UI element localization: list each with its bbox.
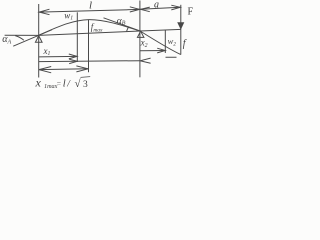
arrowhead left of a dimension — [140, 7, 149, 12]
deflection curve overhang — [140, 31, 181, 55]
arrowhead of x1 — [69, 54, 77, 59]
svg-text:αA: αA — [2, 34, 11, 45]
arrowhead right of a dimension — [171, 5, 180, 10]
deflection curve between supports — [39, 20, 140, 36]
svg-text:x1max=l/√3: x1max=l/√3 — [35, 76, 89, 91]
vertical extension line at x1max — [88, 20, 90, 73]
arrowhead right of l dimension — [130, 7, 140, 12]
tangent at B — [104, 18, 141, 31]
dimension line x (A to B row) — [39, 60, 140, 63]
overline of sqrt 3 — [81, 76, 91, 79]
svg-text:a: a — [154, 0, 159, 10]
arrowhead on x row at B — [140, 58, 151, 63]
svg-text:F: F — [188, 7, 194, 18]
extension line at support B — [139, 1, 141, 78]
extension line at support A — [38, 4, 40, 78]
arrowhead on x row at ordinate line — [69, 59, 77, 63]
arrowhead of x2 — [157, 48, 165, 53]
svg-text:l: l — [89, 0, 92, 11]
arrowhead left of l dimension — [39, 9, 49, 15]
dimension arrow x1 — [39, 55, 77, 58]
svg-text:x1: x1 — [43, 46, 51, 57]
support triangle A — [35, 36, 42, 43]
angle arc alpha_A — [15, 36, 24, 41]
svg-text:x2: x2 — [140, 37, 148, 49]
dimension line a (overhang) — [140, 7, 180, 9]
double arrow x1max: right head — [76, 66, 88, 72]
ordinate line w2 — [164, 30, 166, 53]
svg-text:fmax: fmax — [91, 22, 103, 34]
end tick of deflected beam — [166, 56, 177, 58]
double arrow x1max: left head — [39, 67, 51, 73]
support triangle B — [137, 31, 144, 37]
svg-text:αB: αB — [117, 17, 126, 27]
svg-text:w1: w1 — [64, 10, 73, 21]
dimension line l (span) — [39, 9, 140, 12]
dimension arrow x2 — [140, 50, 165, 52]
force line / end extension at free end — [180, 5, 182, 55]
force arrowhead F — [177, 22, 184, 30]
tangent at A — [13, 30, 52, 47]
vertical ordinate line at w1 position — [76, 12, 78, 62]
svg-text:w2: w2 — [168, 36, 177, 48]
svg-text:f: f — [183, 38, 187, 49]
beam axis (undeflected) — [5, 29, 181, 35]
angle arc alpha_B — [127, 27, 129, 32]
double arrow x1max: line — [39, 68, 88, 71]
